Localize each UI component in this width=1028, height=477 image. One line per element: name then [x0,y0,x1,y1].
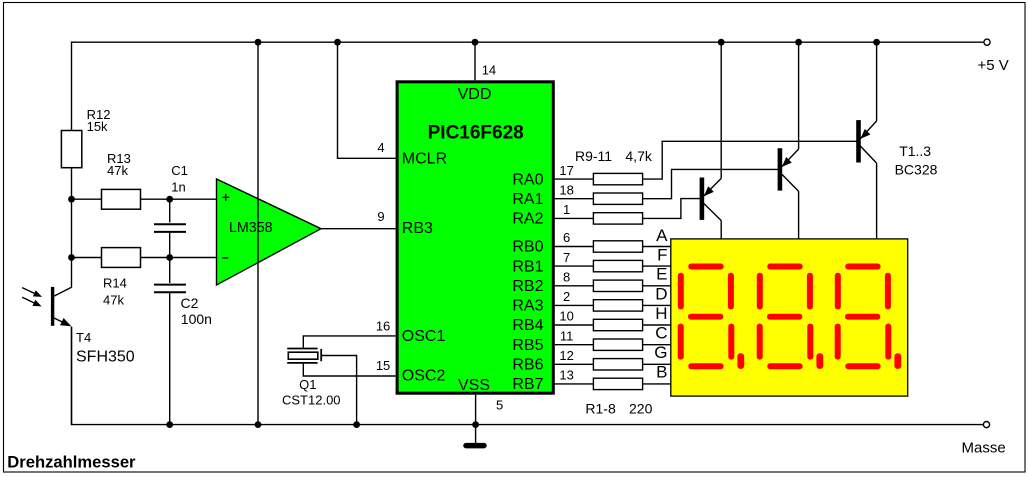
wire R3 to display segment E [643,285,671,287]
wire RA0 pin 17 row [555,178,594,180]
svg-text:VDD: VDD [458,86,492,103]
svg-text:RB2: RB2 [512,278,543,295]
node MCLR rail junction [334,39,341,46]
svg-text:Masse: Masse [962,439,1006,456]
node C2 ground junction [166,421,173,428]
svg-text:T4: T4 [76,330,91,345]
svg-text:E: E [656,265,667,284]
wire R11 to T1 base [643,199,700,219]
svg-text:C2: C2 [181,295,199,311]
svg-text:RB3: RB3 [402,220,433,237]
svg-text:RB7: RB7 [512,376,543,393]
wire T1 collector to display [720,221,722,239]
transistor T2 [780,148,799,191]
wire RB5 pin 11 row [555,344,594,346]
resistor R5 [593,319,642,330]
Masse terminal [983,422,989,428]
wire R2 to display segment F [643,265,671,267]
svg-text:18: 18 [559,182,573,197]
wire R9 to T3 base [643,141,858,179]
resistor R2 [593,260,642,271]
wire R14 row [72,257,217,259]
svg-text:5: 5 [496,398,503,413]
svg-text:8: 8 [563,270,570,285]
svg-text:15: 15 [376,358,390,373]
wire R4 to display segment D [643,304,671,306]
resistor R3 [593,280,642,291]
transistor T3 [859,120,877,163]
capacitor C2 [154,258,186,425]
resistor R14 [102,248,141,268]
svg-text:12: 12 [559,348,573,363]
resistor R13 [102,189,141,209]
wire R7 to display segment G [643,363,671,365]
wire node B down to T4 collector [71,258,73,288]
node top rail x258 [255,39,262,46]
svg-text:BC328: BC328 [895,162,938,178]
wire R1 to display segment A [643,246,671,248]
+5V terminal [984,39,990,45]
wire +5V rail [72,42,984,130]
wire T3 collector to display [876,163,878,239]
transistor T4 phototransistor [53,287,72,326]
wire OSC1 pin 16 [303,336,395,348]
op-amp U1 LM358 [217,179,322,285]
svg-text:R1-8: R1-8 [585,401,616,417]
resistor R8 [593,378,642,389]
resistor R10 [593,193,642,204]
svg-text:+5 V: +5 V [978,57,1009,74]
node Q1 ground junction [353,421,360,428]
wire T3 emitter to +5V [876,42,878,121]
T1 emitter arrowhead [704,186,714,196]
svg-text:2: 2 [563,289,570,304]
svg-text:B: B [656,362,667,381]
wire RB7 pin 13 row [555,383,594,385]
resistor R12 [61,131,81,168]
svg-text:C1: C1 [171,163,188,178]
wire RA3 pin 2 row [555,304,594,306]
svg-text:T1..3: T1..3 [899,143,931,159]
svg-text:H: H [655,304,667,323]
node VDD rail junction [472,39,479,46]
node VSS rail junction [472,421,479,428]
svg-text:14: 14 [482,63,496,78]
T2 emitter arrowhead [782,157,792,167]
display digit 1 [678,264,745,370]
resonator Q1 [287,349,321,363]
wire RB6 pin 12 row [555,363,594,365]
wire RA2 pin 1 row [555,217,594,219]
node C2 junction [166,254,173,261]
wire op-amp output to RB3 [321,228,396,230]
svg-text:RA1: RA1 [512,191,543,208]
resistor R9 [593,173,642,184]
wire T2 emitter to +5V [798,42,800,149]
svg-text:4,7k: 4,7k [625,148,652,164]
T4 light arrow 2 [22,297,41,306]
node B junction (left, R14) [68,254,75,261]
op-amp supply wire (vertical x258) [257,42,259,424]
svg-text:RA2: RA2 [512,211,543,228]
svg-text:17: 17 [559,163,573,178]
wire Masse rail [72,327,984,425]
resistor R6 [593,339,642,350]
svg-text:SFH350: SFH350 [76,349,135,366]
display digit 3 [835,264,902,370]
op-amp minus input mark [222,257,228,259]
svg-text:CST12.00: CST12.00 [282,393,341,408]
svg-text:47k: 47k [103,293,124,308]
IC U2 PIC16F628 body [397,82,553,393]
T3 emitter arrowhead [861,129,871,139]
capacitor C1 [154,199,186,257]
wire RB0 pin 6 row [555,246,594,248]
svg-text:10: 10 [559,309,573,324]
svg-text:RB5: RB5 [512,337,543,354]
svg-text:A: A [656,226,668,245]
svg-text:4: 4 [377,140,384,155]
node C1 junction [166,196,173,203]
svg-text:RB6: RB6 [512,357,543,374]
svg-text:RA3: RA3 [512,298,543,315]
svg-text:6: 6 [563,230,570,245]
wire RB4 pin 10 row [555,324,594,326]
svg-text:11: 11 [560,328,574,343]
wire VDD pin 14 [474,42,476,80]
T4 light arrow 1 [22,288,42,297]
node A junction (left, R13) [68,196,75,203]
ground symbol [466,443,484,449]
wire R12 bottom to node A [71,168,73,258]
svg-text:1n: 1n [171,180,185,195]
wire OSC2 pin 15 [303,364,395,376]
resistor R1 [593,241,642,252]
op-amp plus input mark [222,194,229,201]
svg-text:C: C [655,323,667,342]
wire R8 to display segment B [643,383,671,385]
wire R13 row [72,198,217,200]
svg-text:MCLR: MCLR [402,151,447,168]
wire R6 to display segment C [643,344,671,346]
svg-text:15k: 15k [87,119,108,134]
svg-text:13: 13 [559,368,573,383]
svg-text:47k: 47k [107,163,128,178]
svg-text:Q1: Q1 [299,377,316,392]
node T1 rail junction [718,39,725,46]
svg-text:100n: 100n [181,311,212,327]
svg-text:RB1: RB1 [512,258,543,275]
wire Q1 center electrode to ground [322,356,357,425]
svg-text:Drehzahlmesser: Drehzahlmesser [7,452,136,471]
wire T2 collector to display [798,191,800,239]
svg-text:220: 220 [629,401,653,417]
svg-text:F: F [657,245,667,264]
T4 emitter arrowhead [60,318,71,326]
svg-text:RB4: RB4 [512,317,543,334]
svg-text:LM358: LM358 [229,220,273,236]
svg-text:R14: R14 [103,275,127,290]
resistor R11 [593,213,642,224]
wire R10 to T2 base [643,169,779,198]
svg-text:PIC16F628: PIC16F628 [428,123,524,144]
resistor R4 [593,300,642,311]
svg-text:VSS: VSS [458,377,490,394]
wire T1 emitter to +5V [720,42,722,178]
svg-text:OSC2: OSC2 [402,368,446,385]
svg-text:OSC1: OSC1 [402,328,446,345]
wire MCLR pin 4 [338,42,396,158]
svg-text:G: G [654,343,667,362]
svg-text:7: 7 [563,250,570,265]
svg-text:1: 1 [563,202,570,217]
resistor R7 [593,359,642,370]
svg-text:D: D [655,284,667,303]
transistor T1 [702,178,721,221]
node bottom rail x258 [255,421,262,428]
display LED 7-segment module [671,239,908,396]
svg-text:RB0: RB0 [512,239,543,256]
svg-text:9: 9 [377,209,384,224]
svg-text:R9-11: R9-11 [575,148,612,164]
svg-text:16: 16 [376,318,390,333]
node T2 rail junction [795,39,802,46]
wire VSS pin 5 [475,395,477,444]
node T3 rail junction [873,39,880,46]
wire R5 to display segment H [643,324,671,326]
wire RA1 pin 18 row [555,198,594,200]
display digit 2 [757,264,824,370]
wire T4 emitter down [71,327,73,425]
svg-text:RA0: RA0 [512,171,543,188]
wire RB2 pin 8 row [555,285,594,287]
wire RB1 pin 7 row [555,265,594,267]
